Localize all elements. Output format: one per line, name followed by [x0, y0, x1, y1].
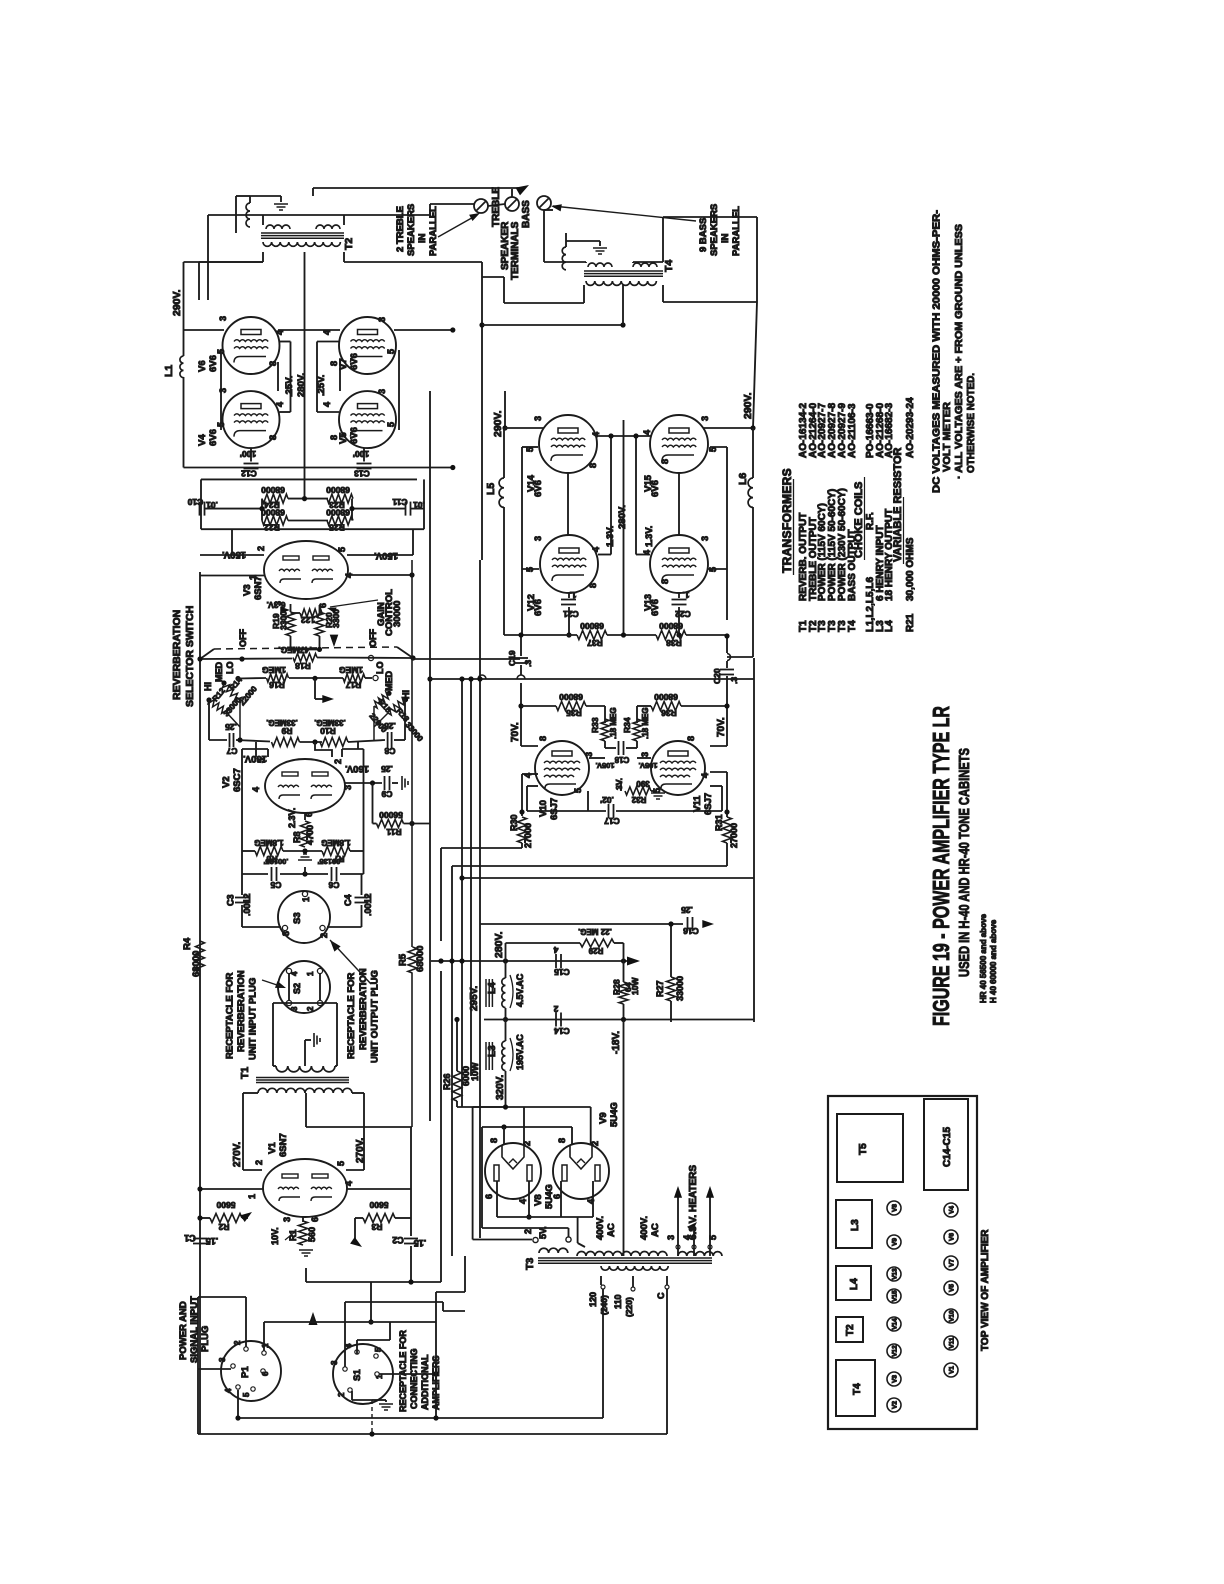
svg-text:C14: C14 [554, 1026, 570, 1036]
svg-text:6V6: 6V6 [208, 429, 219, 446]
svg-text:290V.: 290V. [742, 392, 754, 419]
svg-text:C4: C4 [343, 894, 353, 906]
svg-text:6V6: 6V6 [349, 427, 360, 444]
svg-text:V2: V2 [892, 1401, 899, 1409]
svg-text:VOLT METER: VOLT METER [941, 402, 953, 472]
svg-text:30000: 30000 [392, 601, 403, 627]
svg-text:C10: C10 [187, 497, 203, 507]
svg-text:1.8MEG: 1.8MEG [321, 838, 350, 847]
svg-text:4: 4 [586, 1199, 596, 1204]
svg-text:6V6: 6V6 [208, 355, 219, 372]
svg-text:V10: V10 [949, 1310, 956, 1322]
svg-text:390: 390 [636, 779, 650, 788]
svg-text:6V6: 6V6 [650, 599, 661, 616]
svg-text:3: 3 [343, 785, 353, 790]
svg-text:V4: V4 [197, 434, 208, 446]
svg-text:6V6: 6V6 [533, 599, 544, 616]
svg-text:4: 4 [700, 773, 710, 778]
svg-text:V15: V15 [892, 1290, 899, 1302]
svg-text:1: 1 [301, 897, 311, 902]
svg-text:V11: V11 [692, 795, 703, 812]
svg-text:USED IN H-40 AND HR-40 TONE CA: USED IN H-40 AND HR-40 TONE CABINETS [956, 748, 973, 977]
svg-text:4: 4 [344, 1181, 354, 1186]
svg-text:V10: V10 [538, 800, 549, 817]
svg-text:PLUG: PLUG [200, 1326, 211, 1352]
svg-text:6: 6 [310, 1217, 320, 1222]
svg-text:SELECTOR SWITCH: SELECTOR SWITCH [184, 606, 196, 707]
svg-text:9 BASS: 9 BASS [698, 218, 709, 252]
svg-text:S1: S1 [352, 1369, 363, 1381]
svg-text:270V.: 270V. [355, 1138, 366, 1163]
svg-text:8: 8 [686, 736, 696, 741]
svg-text:AC: AC [606, 1223, 617, 1237]
svg-text:5: 5 [336, 1161, 346, 1166]
svg-text:R1: R1 [288, 1229, 298, 1241]
svg-text:IN: IN [417, 233, 428, 243]
svg-text:5: 5 [573, 788, 583, 793]
svg-text:.25V.: .25V. [316, 375, 327, 396]
svg-text:2 TREBLE: 2 TREBLE [395, 206, 406, 252]
svg-text:.0012: .0012 [363, 893, 373, 916]
svg-text:8: 8 [557, 1138, 567, 1143]
svg-text:4.5V.AC: 4.5V.AC [515, 973, 525, 1007]
svg-text:C18: C18 [614, 755, 629, 764]
svg-text:8: 8 [268, 361, 278, 366]
svg-text:R21: R21 [905, 613, 916, 632]
svg-text:70V.: 70V. [716, 717, 727, 737]
svg-text:320V.: 320V. [495, 1075, 506, 1100]
svg-text:OFF: OFF [368, 629, 378, 647]
svg-text:6SN7: 6SN7 [278, 1133, 289, 1157]
svg-text:T1: T1 [239, 1067, 251, 1079]
svg-text:3300: 3300 [279, 611, 289, 630]
svg-text:AO-21106-3: AO-21106-3 [847, 403, 858, 458]
svg-text:R28: R28 [612, 979, 622, 995]
svg-text:3: 3 [218, 1357, 227, 1362]
svg-text:V7: V7 [949, 1259, 956, 1267]
svg-text:R8: R8 [292, 831, 302, 843]
svg-text:2: 2 [256, 546, 266, 551]
svg-text:PARALLEL: PARALLEL [731, 206, 742, 256]
svg-text:V3: V3 [892, 1375, 899, 1383]
svg-text:8: 8 [660, 459, 670, 464]
svg-text:5: 5 [386, 422, 396, 427]
svg-text:.47MEG.: .47MEG. [278, 645, 312, 655]
svg-text:V13: V13 [892, 1268, 899, 1280]
svg-text:70V.: 70V. [510, 722, 521, 742]
svg-text:R29: R29 [588, 946, 603, 955]
svg-text:1.8MEG: 1.8MEG [254, 838, 283, 847]
svg-text:68000: 68000 [191, 951, 202, 977]
svg-text:4: 4 [251, 787, 261, 792]
svg-text:3: 3 [533, 416, 543, 421]
svg-text:8: 8 [660, 579, 670, 584]
svg-text:4700: 4700 [305, 825, 315, 845]
svg-text:.33MEG.: .33MEG. [266, 718, 298, 727]
svg-text:.15: .15 [414, 1238, 427, 1248]
svg-text:V2: V2 [221, 776, 232, 788]
svg-text:R26: R26 [442, 1073, 452, 1090]
svg-text:1.: 1. [569, 590, 576, 600]
svg-text:R2: R2 [218, 1222, 229, 1232]
svg-text:HR 40 56500 and above: HR 40 56500 and above [979, 914, 988, 1003]
svg-text:C2: C2 [392, 1235, 404, 1245]
svg-text:100': 100' [353, 449, 369, 459]
svg-text:3V.: 3V. [614, 778, 624, 790]
svg-text:68000: 68000 [580, 621, 604, 631]
svg-text:R35: R35 [566, 708, 582, 718]
svg-text:V1: V1 [949, 1366, 956, 1374]
svg-text:6V6: 6V6 [533, 480, 544, 497]
svg-text:5: 5 [374, 1347, 383, 1352]
svg-text:T4: T4 [663, 260, 675, 272]
svg-text:V9: V9 [892, 1238, 899, 1246]
svg-text:120: 120 [588, 1292, 598, 1307]
svg-text:L6: L6 [737, 473, 749, 485]
svg-text:4: 4 [591, 547, 601, 552]
svg-text:FIGURE 19 - POWER AMPLIFIER: FIGURE 19 - POWER AMPLIFIER TYPE LR [928, 706, 954, 1026]
svg-text:68000: 68000 [326, 485, 350, 495]
svg-text:V4: V4 [949, 1206, 956, 1214]
svg-text:68000: 68000 [659, 621, 683, 631]
svg-text:6SN7: 6SN7 [253, 576, 264, 600]
svg-text:T2: T2 [343, 238, 355, 250]
svg-text:S3: S3 [292, 912, 303, 924]
svg-text:5V.: 5V. [538, 1226, 548, 1239]
svg-text:C3: C3 [226, 894, 236, 906]
svg-text:6: 6 [261, 1371, 270, 1376]
svg-text:L4: L4 [849, 1278, 860, 1290]
svg-text:C: C [656, 1292, 666, 1299]
svg-text:TRANSFORMERS: TRANSFORMERS [780, 468, 794, 573]
svg-text:V8: V8 [533, 1194, 544, 1206]
svg-text:8: 8 [489, 1138, 499, 1143]
svg-text:295V.: 295V. [469, 986, 480, 1011]
svg-text:5600: 5600 [216, 1200, 235, 1210]
svg-text:TREBLE: TREBLE [491, 187, 502, 227]
svg-text:3: 3 [533, 536, 543, 541]
svg-text:C11: C11 [392, 497, 407, 507]
svg-text:R32: R32 [631, 795, 646, 804]
svg-text:1: 1 [306, 971, 315, 976]
svg-text:4: 4 [553, 945, 558, 955]
svg-text:.18 MEG: .18 MEG [641, 707, 650, 739]
svg-text:-18V.: -18V. [611, 1031, 622, 1054]
svg-text:H 40 60000 and above: H 40 60000 and above [989, 919, 998, 1003]
svg-text:3: 3 [281, 931, 291, 936]
svg-text:TOP VIEW OF AMPLIFIER: TOP VIEW OF AMPLIFIER [980, 1229, 991, 1351]
svg-text:PARALLEL: PARALLEL [428, 206, 439, 256]
svg-text:C19: C19 [507, 650, 517, 666]
svg-text:R4: R4 [182, 937, 193, 950]
svg-text:68000: 68000 [654, 692, 678, 702]
svg-text:R5: R5 [398, 953, 409, 966]
svg-text:4: 4 [322, 330, 332, 335]
svg-text:.25: .25 [381, 764, 393, 774]
svg-text:6SJ7: 6SJ7 [549, 798, 560, 820]
svg-text:.00135': .00135' [263, 857, 288, 866]
svg-text:L4: L4 [487, 982, 498, 994]
svg-text:L5: L5 [485, 483, 497, 495]
svg-text:.15: .15 [206, 1236, 219, 1246]
svg-text:6.3 V. HEATERS: 6.3 V. HEATERS [688, 1165, 699, 1240]
svg-text:2: 2 [233, 1340, 242, 1345]
svg-text:3: 3 [377, 389, 387, 394]
svg-text:10V.: 10V. [270, 1227, 280, 1245]
svg-text:SPEAKERS: SPEAKERS [709, 204, 720, 256]
svg-text:V5: V5 [338, 432, 349, 444]
svg-text:T5: T5 [858, 1143, 869, 1155]
svg-text:UNIT OUTPUT PLUG: UNIT OUTPUT PLUG [370, 970, 381, 1063]
svg-text:4: 4 [224, 1388, 233, 1393]
svg-text:.25: .25 [681, 905, 693, 915]
svg-text:R36: R36 [661, 708, 677, 718]
svg-text:V5: V5 [949, 1284, 956, 1292]
svg-text:BASS: BASS [521, 200, 532, 228]
svg-text:2: 2 [523, 1229, 533, 1234]
svg-text:UNIT INPUT PLUG: UNIT INPUT PLUG [248, 978, 259, 1060]
svg-text:2: 2 [254, 1160, 264, 1165]
svg-text:T2: T2 [845, 1324, 856, 1336]
svg-text:.25V.: .25V. [284, 376, 295, 397]
svg-text:8: 8 [538, 736, 548, 741]
svg-text:400V.: 400V. [639, 1216, 650, 1240]
svg-text:3: 3 [666, 1235, 676, 1240]
svg-text:TERMINALS: TERMINALS [510, 221, 521, 280]
svg-text:RECEPTACLE FOR: RECEPTACLE FOR [225, 972, 236, 1059]
svg-text:4: 4 [642, 430, 652, 435]
svg-text:6V6: 6V6 [650, 480, 661, 497]
svg-text:6V6: 6V6 [349, 353, 360, 370]
svg-text:C21: C21 [563, 609, 579, 619]
svg-text:4: 4 [275, 330, 285, 335]
svg-text:AC: AC [650, 1223, 661, 1237]
svg-text:OTHERWISE NOTED.: OTHERWISE NOTED. [965, 373, 977, 473]
svg-text:280V.: 280V. [493, 931, 505, 958]
svg-text:L3: L3 [850, 1219, 861, 1231]
svg-text:V12: V12 [892, 1345, 899, 1357]
svg-text:R18: R18 [295, 661, 311, 671]
svg-text:R3: R3 [371, 1222, 382, 1232]
svg-text:AO-20293-24: AO-20293-24 [905, 397, 916, 458]
svg-text:.02': .02' [600, 795, 614, 805]
svg-text:3: 3 [584, 752, 594, 757]
svg-text:68000: 68000 [326, 508, 350, 518]
svg-text:C15: C15 [554, 967, 570, 977]
svg-text:V14: V14 [892, 1318, 899, 1330]
svg-text:V11: V11 [949, 1337, 956, 1349]
svg-text:.00135': .00135' [317, 857, 342, 866]
svg-text:R30: R30 [509, 814, 519, 831]
svg-text:2: 2 [333, 759, 343, 764]
svg-text:REVERBERATION: REVERBERATION [236, 970, 247, 1052]
svg-text:5600: 5600 [369, 1200, 388, 1210]
svg-text:.3: .3 [729, 677, 739, 684]
svg-text:.3: .3 [523, 660, 533, 667]
svg-text:C17: C17 [604, 816, 620, 826]
svg-text:C14-C15: C14-C15 [942, 1127, 953, 1167]
svg-text:1.3V.: 1.3V. [644, 526, 655, 547]
svg-text:P1: P1 [240, 1366, 251, 1378]
svg-text:5: 5 [242, 1392, 251, 1397]
svg-text:1.: 1. [682, 590, 689, 600]
svg-text:REVERBERATION: REVERBERATION [171, 610, 183, 700]
svg-text:R16: R16 [269, 680, 285, 690]
svg-text:5: 5 [256, 758, 266, 763]
svg-text:V6: V6 [949, 1233, 956, 1241]
svg-text:5U4G: 5U4G [609, 1102, 620, 1127]
svg-text:3: 3 [218, 388, 228, 393]
svg-text:.22 MEG.: .22 MEG. [578, 927, 612, 936]
svg-text:.33MEG.: .33MEG. [314, 718, 346, 727]
svg-text:1.3V.: 1.3V. [605, 526, 616, 547]
svg-text:R31: R31 [714, 814, 724, 831]
svg-text:V8: V8 [892, 1204, 899, 1212]
svg-text:C16: C16 [683, 926, 699, 936]
svg-text:8: 8 [588, 463, 598, 468]
svg-text:C6: C6 [328, 880, 339, 890]
svg-text:R37: R37 [587, 638, 603, 648]
svg-text:10W: 10W [630, 977, 640, 995]
svg-text:REVERBERATION: REVERBERATION [358, 968, 369, 1050]
svg-text:1MEG: 1MEG [262, 665, 286, 675]
svg-text:(220): (220) [624, 1297, 634, 1317]
svg-text:27000: 27000 [523, 823, 533, 848]
svg-text:3: 3 [290, 1006, 299, 1011]
svg-text:C13: C13 [354, 469, 370, 479]
svg-text:195V.AC: 195V.AC [515, 1034, 525, 1070]
svg-text:R9: R9 [281, 726, 292, 736]
svg-text:T4: T4 [847, 620, 858, 632]
svg-text:560: 560 [307, 1227, 317, 1242]
svg-text:R33: R33 [590, 717, 600, 733]
svg-text:V9: V9 [598, 1112, 609, 1124]
svg-text:C20: C20 [712, 668, 722, 684]
svg-text:T4: T4 [852, 1383, 863, 1395]
svg-text:(240): (240) [599, 1295, 609, 1315]
svg-text:6: 6 [484, 1194, 494, 1199]
svg-text:33000: 33000 [675, 976, 685, 1001]
svg-text:MED: MED [384, 671, 394, 692]
svg-text:C5: C5 [270, 880, 281, 890]
svg-text:2: 2 [306, 1006, 315, 1011]
svg-text:68000: 68000 [415, 946, 426, 972]
svg-text:MED: MED [214, 662, 224, 683]
svg-text:3: 3 [377, 317, 387, 322]
svg-text:105V.: 105V. [639, 761, 658, 770]
svg-text:3: 3 [640, 752, 650, 757]
svg-text:30,000 OHMS: 30,000 OHMS [905, 537, 916, 601]
svg-text:C7: C7 [226, 746, 237, 756]
svg-text:270V.: 270V. [232, 1142, 243, 1167]
svg-text:8: 8 [588, 583, 598, 588]
svg-text:.25: .25 [225, 722, 237, 732]
svg-text:R10: R10 [320, 726, 336, 736]
svg-text:C22: C22 [675, 609, 691, 619]
svg-text:56000: 56000 [379, 810, 403, 820]
svg-text:100': 100' [240, 449, 256, 459]
svg-text:S2: S2 [292, 983, 302, 994]
svg-text:290V.: 290V. [492, 410, 504, 437]
svg-text:L4: L4 [884, 620, 895, 632]
svg-text:110: 110 [613, 1294, 623, 1309]
svg-text:3: 3 [700, 416, 710, 421]
svg-text:R25: R25 [329, 523, 345, 533]
svg-text:290V.: 290V. [171, 289, 183, 316]
svg-text:T3: T3 [524, 1258, 536, 1270]
svg-text:2: 2 [319, 933, 329, 938]
svg-text:L3: L3 [487, 1045, 498, 1057]
svg-text:3: 3 [700, 536, 710, 541]
svg-text:LO: LO [225, 662, 235, 675]
svg-text:CHOKE COILS: CHOKE COILS [853, 482, 865, 558]
svg-text:68000: 68000 [559, 692, 583, 702]
svg-text:ADDITIONAL: ADDITIONAL [420, 1354, 430, 1410]
svg-text:V6: V6 [197, 360, 208, 372]
svg-text:V1: V1 [267, 1142, 278, 1154]
svg-text:5: 5 [386, 349, 396, 354]
svg-text:4: 4 [322, 402, 332, 407]
svg-text:IN: IN [720, 233, 731, 243]
svg-text:3300: 3300 [331, 609, 341, 628]
svg-text:280V.: 280V. [617, 505, 628, 529]
svg-text:C12: C12 [241, 469, 257, 479]
svg-text:R27: R27 [655, 980, 665, 997]
svg-text:2: 2 [337, 1392, 346, 1397]
svg-text:8: 8 [268, 435, 278, 440]
svg-text:SPEAKERS: SPEAKERS [406, 204, 417, 256]
svg-text:105V.: 105V. [596, 761, 615, 770]
svg-text:4: 4 [275, 402, 285, 407]
svg-text:3: 3 [330, 1360, 339, 1365]
svg-text:5: 5 [337, 547, 347, 552]
svg-text:4: 4 [518, 1199, 528, 1204]
svg-text:HI: HI [203, 682, 213, 691]
svg-text:C9: C9 [381, 789, 392, 799]
svg-text:1MEG: 1MEG [339, 665, 363, 675]
svg-text:.25: .25 [384, 721, 396, 731]
svg-text:C8: C8 [384, 746, 395, 756]
svg-text:2: 2 [553, 1004, 558, 1014]
svg-text:5U4G: 5U4G [544, 1184, 555, 1209]
svg-text:1: 1 [261, 1343, 270, 1348]
svg-text:VARIABLE RESISTOR: VARIABLE RESISTOR [892, 447, 904, 562]
svg-text:1: 1 [247, 1194, 257, 1199]
svg-text:V3: V3 [242, 584, 253, 596]
svg-text:R22: R22 [264, 523, 280, 533]
svg-text:RECEPTACLE FOR: RECEPTACLE FOR [346, 972, 357, 1059]
svg-text:160V.: 160V. [345, 763, 369, 774]
svg-text:OFF: OFF [238, 629, 248, 647]
svg-text:R11: R11 [386, 827, 401, 837]
svg-text:.18 MEG: .18 MEG [609, 707, 618, 739]
svg-text:3: 3 [282, 1217, 292, 1222]
svg-text:R34: R34 [622, 717, 632, 733]
svg-text:280V.: 280V. [296, 373, 307, 397]
svg-text:400V.: 400V. [595, 1216, 606, 1240]
svg-text:10W: 10W [470, 1062, 480, 1081]
svg-text:27000: 27000 [729, 823, 739, 848]
svg-text:RECEPTACLE FOR: RECEPTACLE FOR [398, 1330, 408, 1412]
svg-text:POWER AND: POWER AND [178, 1301, 189, 1360]
svg-text:CONNECTING: CONNECTING [409, 1349, 419, 1410]
svg-text:R17: R17 [345, 680, 361, 690]
svg-text:68000: 68000 [261, 485, 285, 495]
svg-text:L1: L1 [163, 365, 175, 377]
svg-text:R38: R38 [666, 638, 682, 648]
svg-text:· ALL VOLTAGES ARE + FROM GROU: · ALL VOLTAGES ARE + FROM GROUND UNLESS [953, 224, 965, 479]
svg-text:.0012: .0012 [242, 893, 252, 916]
